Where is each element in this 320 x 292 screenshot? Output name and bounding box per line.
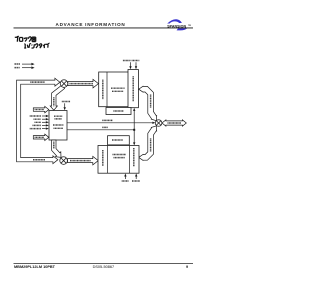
DQ data bus double arrow: [162, 120, 186, 126]
control line 1 to mux 1: [67, 122, 153, 124]
lower matrix center label: [113, 154, 127, 156]
right data bus: mux1 up to upper I/O column: [139, 86, 157, 120]
control input pin rows: [30, 115, 41, 117]
address stub arrow into control block (bottom): [33, 134, 49, 140]
power pin Vss: [15, 67, 20, 69]
bus mux A to cell matrix (read/write address): [68, 79, 99, 88]
label on bus to matrix: [70, 83, 94, 85]
lower strip block: [108, 136, 130, 145]
vertical control line between blocks: [133, 110, 135, 143]
Spansion logo: [167, 19, 191, 30]
subheading: 1 bank type: [23, 43, 26, 46]
mux A (circled X, upper left): [60, 80, 68, 88]
heading: burokku-zu (block diagram): [15, 36, 18, 38]
header rule: [14, 27, 194, 30]
svg-text:MBM29PL12LM 10PBT: MBM29PL12LM 10PBT: [14, 265, 56, 269]
label address (top bus): [30, 81, 45, 83]
mux B (circled X, lower left): [60, 157, 68, 165]
vertical label inside right upper bus: [150, 95, 152, 109]
address bus U-loop feeding both multiplexers: [17, 78, 60, 163]
bottom pin arrows into lower matrix: [124, 176, 126, 179]
control block text: [54, 115, 63, 117]
control line 2 with junction: [67, 129, 134, 131]
power pin Vcc: [15, 63, 21, 65]
labelled input into control block top: [62, 101, 71, 103]
lower cell matrix block: [98, 146, 139, 174]
svg-text:DS05-50867: DS05-50867: [93, 265, 115, 269]
upper matrix left column vertical label: [102, 80, 104, 100]
control / state machine block: [49, 111, 67, 141]
upper matrix center label: [111, 87, 125, 89]
label address (bottom bus): [33, 159, 45, 161]
mux 1 (circled X, right middle): [155, 120, 162, 127]
vertical label inside bus: [53, 97, 55, 106]
footer rule: [14, 262, 194, 265]
upper cell matrix block: [99, 72, 129, 107]
svg-text:ADVANCE INFORMATION: ADVANCE INFORMATION: [56, 22, 126, 27]
upper I/O column block: [128, 70, 138, 108]
bus mux A down to control block: [50, 85, 64, 110]
lower I/O column vertical label: [133, 148, 135, 167]
lower matrix left column vertical label: [102, 150, 104, 166]
address stub arrow into control block (top): [33, 106, 49, 112]
top pin labels and arrows into I/O column: [123, 60, 131, 62]
upper I/O column vertical label: [132, 76, 134, 101]
right data bus: mux1 down to lower I/O column: [139, 126, 157, 160]
svg-text:9: 9: [186, 265, 188, 269]
bus control block down to mux B: [52, 140, 61, 157]
upper strip block (sense amp): [106, 108, 131, 115]
bus mux B to lower cell matrix: [68, 156, 99, 165]
